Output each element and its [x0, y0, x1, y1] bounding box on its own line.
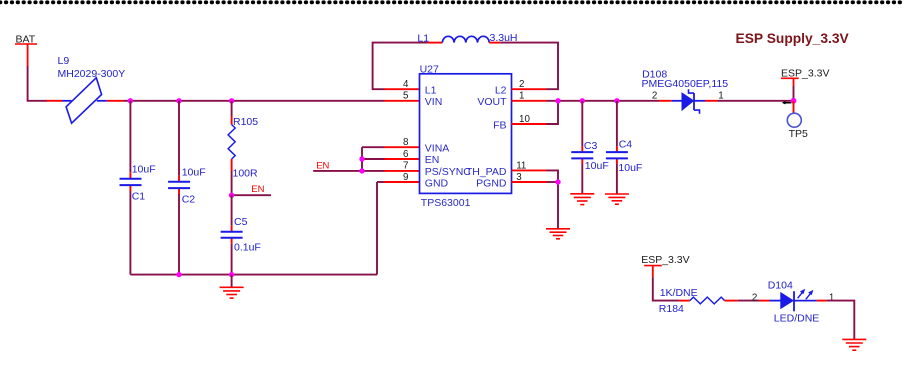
- border dotted top: [0, 0, 904, 4]
- pin 9 stub GND: [385, 181, 420, 183]
- svg-text:D104: D104: [768, 279, 793, 291]
- svg-text:C2: C2: [182, 193, 196, 205]
- wire BAT to L9: [28, 66, 63, 101]
- wire top loop left: [373, 43, 443, 90]
- pin 10 stub FB: [512, 123, 547, 125]
- wire ESP to R184: [653, 277, 690, 300]
- junction C4 top: [614, 98, 619, 103]
- svg-text:VOUT: VOUT: [477, 96, 507, 108]
- port arrow marker: [783, 102, 791, 104]
- svg-text:PGND: PGND: [476, 177, 507, 189]
- capacitor C5: [221, 216, 261, 253]
- ground GND PGND: [546, 229, 570, 239]
- ground GND LED: [842, 339, 866, 350]
- svg-text:MH2029-300Y: MH2029-300Y: [58, 68, 126, 80]
- title text: [736, 31, 850, 46]
- svg-text:R105: R105: [233, 116, 258, 128]
- svg-text:1K/DNE: 1K/DNE: [660, 287, 698, 299]
- wire C3 vertical: [581, 101, 583, 194]
- svg-text:5: 5: [403, 91, 409, 102]
- svg-text:L1: L1: [425, 85, 437, 97]
- svg-text:L2: L2: [495, 85, 507, 97]
- capacitor C2: [168, 166, 206, 205]
- svg-text:C1: C1: [132, 190, 146, 202]
- resistor R184: [659, 287, 738, 315]
- junction C3 top: [580, 98, 585, 103]
- svg-text:EN: EN: [251, 184, 264, 195]
- resistor R105: [228, 116, 258, 179]
- svg-text:EN: EN: [425, 154, 440, 166]
- svg-text:7: 7: [403, 161, 408, 172]
- pin 6 stub EN: [385, 158, 420, 160]
- wire D108 to ESP_3.3V: [717, 100, 793, 102]
- capacitor C1: [120, 163, 156, 202]
- port BAT: [15, 33, 37, 66]
- svg-text:9: 9: [403, 172, 408, 183]
- wire D104 to ground: [826, 301, 854, 340]
- junction bottom C2: [176, 272, 181, 277]
- junction pin7: [359, 168, 364, 173]
- wire node EN to C5: [231, 195, 233, 274]
- pin 4 stub L1: [385, 88, 420, 90]
- net label EN wire: [313, 161, 384, 172]
- junction ESP_3.3V: [791, 98, 797, 104]
- LED D104: [768, 279, 835, 324]
- svg-text:C5: C5: [234, 216, 248, 228]
- ground GND C4: [605, 194, 629, 204]
- power port ESP_3.3V LED: [641, 254, 689, 277]
- junction EN node: [229, 193, 234, 198]
- wire EN harness vertical: [362, 147, 385, 171]
- svg-text:L1: L1: [417, 33, 429, 45]
- svg-text:ESP_3.3V: ESP_3.3V: [641, 254, 689, 266]
- wire C2 vertical: [178, 101, 180, 275]
- svg-text:L9: L9: [58, 55, 70, 67]
- svg-text:C3: C3: [584, 140, 598, 152]
- pin 8 stub VINA: [385, 146, 420, 148]
- capacitor C3: [571, 140, 608, 172]
- wire top loop right: [489, 43, 558, 90]
- diode D108: [642, 68, 729, 113]
- test point TP5: [787, 101, 808, 140]
- wire main rail VIN: [124, 100, 385, 102]
- pin 5 stub VIN: [385, 100, 420, 102]
- svg-text:PS/SYNC: PS/SYNC: [425, 166, 472, 178]
- wire R105 top: [231, 101, 233, 125]
- ground GND1: [220, 275, 244, 299]
- pin 1 stub VOUT: [512, 100, 547, 102]
- svg-text:C4: C4: [619, 138, 633, 150]
- op-amp U27 box: [420, 63, 512, 209]
- pin 7 stub PS/SYNC: [385, 170, 420, 172]
- svg-text:TPS63001: TPS63001: [421, 197, 471, 209]
- inductor L9: [58, 55, 126, 123]
- svg-text:GND: GND: [425, 177, 449, 189]
- wire R105 bottom to node EN: [231, 159, 233, 195]
- wire FB loop: [547, 101, 559, 124]
- svg-text:VIN: VIN: [425, 96, 443, 108]
- svg-text:U27: U27: [420, 63, 439, 75]
- junction C2: [176, 98, 181, 103]
- svg-text:10uF: 10uF: [132, 163, 156, 175]
- wire R184 to D104: [738, 292, 770, 303]
- junction PGND: [555, 179, 560, 184]
- svg-text:R184: R184: [659, 303, 684, 315]
- wire VOUT rail: [547, 100, 660, 102]
- svg-text:TP5: TP5: [789, 128, 808, 140]
- junction bottom C5: [229, 272, 234, 277]
- junction FB: [555, 98, 560, 103]
- svg-text:PMEG4050EP,115: PMEG4050EP,115: [642, 78, 729, 90]
- inductor L1: [417, 32, 517, 45]
- svg-text:EN: EN: [316, 161, 329, 172]
- pin 3 stub PGND: [512, 181, 547, 183]
- svg-text:1: 1: [829, 292, 834, 303]
- svg-text:LED/DNE: LED/DNE: [774, 312, 820, 324]
- junction pin6: [359, 156, 364, 161]
- svg-text:10uF: 10uF: [585, 160, 609, 172]
- svg-text:TH_PAD: TH_PAD: [466, 166, 507, 178]
- svg-text:VINA: VINA: [425, 143, 450, 155]
- junction C1: [128, 98, 133, 103]
- svg-text:FB: FB: [493, 119, 506, 131]
- svg-text:100R: 100R: [233, 168, 259, 180]
- wire C4 vertical: [616, 101, 618, 194]
- power port ESP_3.3V: [781, 67, 829, 98]
- svg-text:6: 6: [403, 149, 409, 160]
- svg-text:2: 2: [752, 292, 757, 303]
- svg-text:0.1uF: 0.1uF: [234, 241, 261, 253]
- svg-text:ESP Supply_3.3V: ESP Supply_3.3V: [736, 31, 850, 46]
- wire bottom rail: [130, 182, 384, 275]
- svg-text:10uF: 10uF: [182, 166, 206, 178]
- pin 11 stub TH_PAD: [512, 169, 547, 171]
- svg-text:8: 8: [403, 137, 409, 148]
- junction R105: [229, 98, 234, 103]
- svg-text:2: 2: [652, 91, 657, 102]
- ground GND C3: [570, 194, 594, 205]
- svg-text:4: 4: [403, 79, 409, 90]
- capacitor C4: [606, 138, 642, 174]
- wire TH_PAD PGND: [547, 170, 559, 228]
- pin 2 stub L2: [512, 88, 547, 90]
- svg-text:10uF: 10uF: [618, 162, 642, 174]
- node EN stub: [232, 184, 271, 195]
- wire C1 vertical: [129, 101, 131, 275]
